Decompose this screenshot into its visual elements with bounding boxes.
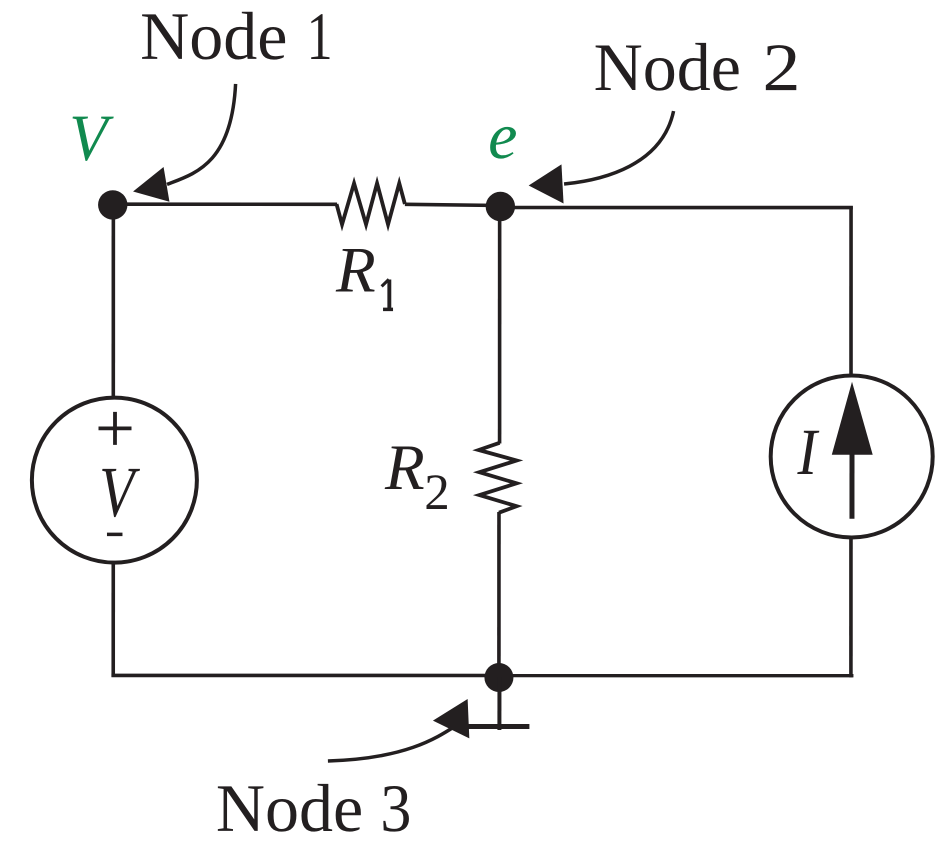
ground stub wire (497, 677, 501, 730)
voltage source V1 circle (32, 398, 197, 563)
svg-text:2: 2 (424, 465, 450, 521)
svg-text:R: R (335, 234, 376, 306)
svg-text:V: V (69, 102, 114, 175)
wire top-left (node1 to R1) (112, 202, 337, 206)
node 2 junction dot (486, 192, 515, 221)
current source arrow (832, 382, 873, 519)
wire left side upper (node1 to voltage source) (112, 204, 116, 399)
voltage source plus sign (98, 412, 131, 445)
callout arrow to node 1 (133, 84, 236, 202)
ground bar (468, 724, 529, 729)
svg-text:V: V (99, 452, 140, 532)
wire right side upper (corner to current source) (849, 206, 853, 376)
svg-text:Node2: Node2 (594, 29, 801, 105)
svg-text:R: R (384, 432, 425, 504)
wire R1 to node2 (405, 204, 500, 205)
node 1 junction dot (98, 190, 127, 219)
resistor R1 (337, 183, 405, 224)
resistor R2 (479, 443, 517, 513)
wire node2 down to R2 (498, 207, 502, 444)
wire bottom (111, 674, 853, 678)
svg-text:Node3: Node3 (216, 770, 412, 843)
svg-text:e: e (488, 100, 517, 173)
svg-text:I: I (797, 416, 820, 489)
wire node2 to top-right corner (500, 206, 853, 210)
wire left side lower (voltage source to bottom) (111, 561, 115, 677)
wire right side lower (current source to bottom) (849, 537, 853, 678)
node 3 junction dot (484, 663, 513, 692)
voltage source minus sign (107, 533, 123, 537)
callout arrow to node 2 (529, 111, 674, 204)
wire R2 to node3 (497, 512, 501, 677)
current source I1 circle (771, 375, 933, 537)
callout arrow to node 3 (328, 699, 469, 761)
